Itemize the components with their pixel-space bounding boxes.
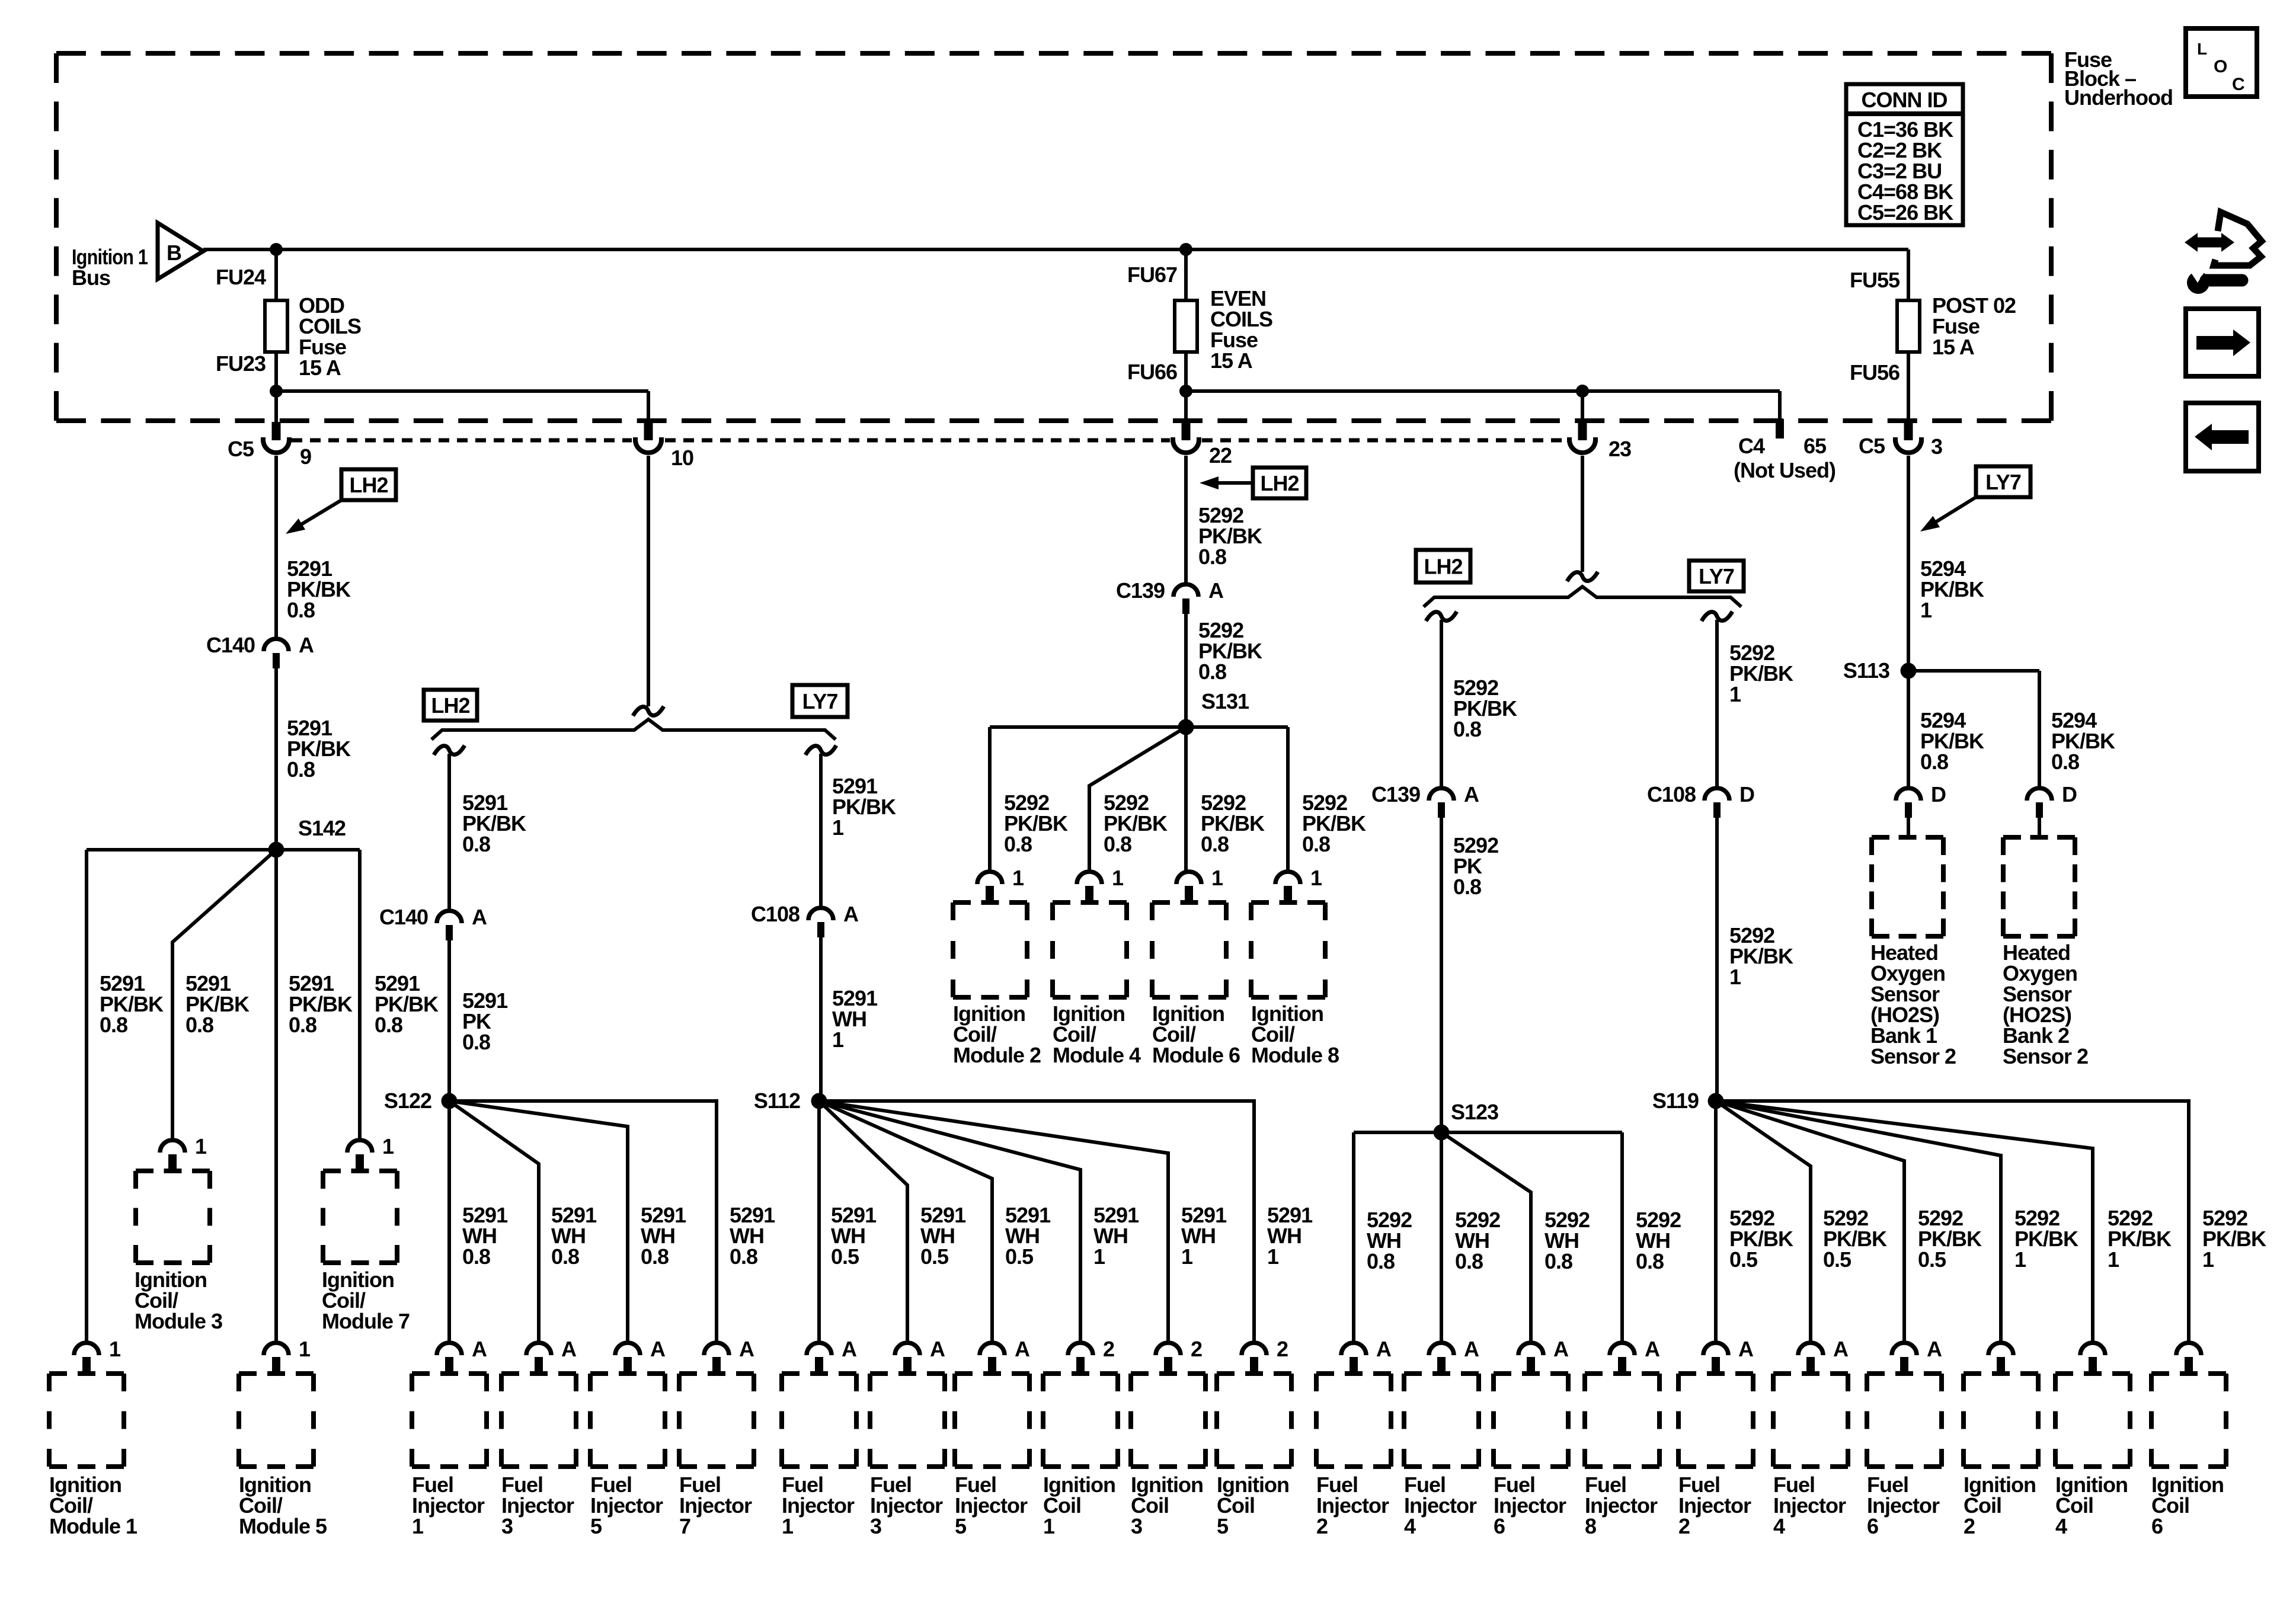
svg-text:1: 1: [2014, 1247, 2026, 1272]
svg-text:5: 5: [955, 1514, 967, 1538]
svg-text:22: 22: [1209, 443, 1232, 468]
svg-text:0.5: 0.5: [831, 1244, 859, 1269]
svg-text:1: 1: [195, 1134, 207, 1158]
svg-text:Sensor 2: Sensor 2: [1870, 1044, 1956, 1068]
svg-text:1: 1: [782, 1514, 794, 1538]
svg-text:Module 6: Module 6: [1152, 1043, 1240, 1067]
svg-text:2: 2: [1316, 1514, 1328, 1538]
svg-text:S131: S131: [1201, 689, 1249, 713]
svg-text:C140: C140: [206, 633, 255, 657]
svg-text:D: D: [2062, 782, 2077, 806]
svg-text:Bus: Bus: [72, 265, 110, 290]
svg-text:A: A: [650, 1337, 666, 1361]
svg-text:1: 1: [1267, 1244, 1279, 1269]
svg-text:FU23: FU23: [216, 351, 266, 376]
svg-text:1: 1: [1729, 965, 1741, 989]
svg-text:A: A: [472, 905, 487, 929]
svg-text:1: 1: [1112, 866, 1124, 890]
svg-text:2: 2: [1103, 1337, 1114, 1361]
svg-text:1: 1: [832, 1028, 844, 1052]
svg-text:Sensor 2: Sensor 2: [2003, 1044, 2088, 1068]
svg-text:LH2: LH2: [349, 473, 388, 497]
svg-text:L: L: [2197, 40, 2207, 58]
svg-text:0.8: 0.8: [551, 1244, 579, 1269]
svg-text:A: A: [843, 902, 859, 926]
svg-text:A: A: [1833, 1337, 1849, 1361]
svg-text:1: 1: [2108, 1247, 2119, 1272]
svg-text:S113: S113: [1843, 658, 1889, 683]
svg-text:1: 1: [382, 1134, 394, 1158]
svg-text:Underhood: Underhood: [2064, 85, 2173, 110]
svg-text:15 A: 15 A: [1932, 335, 1975, 359]
svg-text:C4: C4: [1738, 434, 1765, 458]
svg-text:C5: C5: [1859, 434, 1885, 458]
svg-text:1: 1: [412, 1514, 424, 1538]
svg-text:2: 2: [1191, 1337, 1202, 1361]
svg-text:9: 9: [300, 444, 311, 469]
svg-text:FU55: FU55: [1850, 268, 1900, 292]
svg-text:A: A: [472, 1337, 487, 1361]
svg-text:2: 2: [1277, 1337, 1288, 1361]
svg-text:LY7: LY7: [1699, 564, 1734, 588]
svg-text:2: 2: [1678, 1514, 1690, 1538]
svg-text:A: A: [1376, 1337, 1392, 1361]
svg-text:4: 4: [2055, 1514, 2067, 1538]
svg-text:C5: C5: [228, 437, 254, 461]
svg-text:1: 1: [1310, 866, 1322, 890]
svg-text:10: 10: [671, 446, 693, 470]
svg-text:4: 4: [1773, 1514, 1785, 1538]
svg-text:1: 1: [832, 815, 844, 840]
svg-text:0.8: 0.8: [186, 1013, 213, 1037]
svg-text:0.8: 0.8: [1302, 832, 1330, 856]
svg-text:65: 65: [1803, 434, 1827, 458]
svg-text:S122: S122: [384, 1089, 431, 1113]
svg-text:C5=26 BK: C5=26 BK: [1857, 200, 1953, 225]
svg-text:CONN ID: CONN ID: [1862, 88, 1948, 112]
svg-text:3: 3: [870, 1514, 881, 1538]
svg-text:O: O: [2214, 57, 2227, 76]
svg-text:FU66: FU66: [1127, 360, 1177, 384]
svg-text:6: 6: [2151, 1514, 2163, 1538]
svg-text:Module 5: Module 5: [239, 1514, 327, 1538]
svg-text:Module 2: Module 2: [953, 1043, 1041, 1067]
svg-text:C139: C139: [1371, 782, 1420, 806]
svg-text:A: A: [561, 1337, 577, 1361]
svg-text:A: A: [1645, 1337, 1660, 1361]
svg-text:LY7: LY7: [802, 689, 838, 713]
svg-text:0.8: 0.8: [1367, 1249, 1395, 1273]
svg-text:0.5: 0.5: [920, 1244, 949, 1269]
svg-text:Module 4: Module 4: [1053, 1043, 1141, 1067]
svg-text:0.5: 0.5: [1823, 1247, 1851, 1272]
svg-text:0.8: 0.8: [1636, 1249, 1664, 1273]
svg-text:1: 1: [109, 1337, 121, 1361]
svg-text:0.8: 0.8: [1104, 832, 1131, 856]
svg-text:6: 6: [1494, 1514, 1505, 1538]
svg-text:1: 1: [299, 1337, 311, 1361]
svg-text:0.8: 0.8: [1198, 660, 1226, 684]
svg-text:S123: S123: [1451, 1100, 1498, 1124]
svg-text:A: A: [1553, 1337, 1569, 1361]
svg-text:A: A: [842, 1337, 857, 1361]
svg-text:A: A: [1464, 1337, 1479, 1361]
svg-text:C108: C108: [751, 902, 800, 926]
svg-text:1: 1: [2202, 1247, 2214, 1272]
svg-text:5: 5: [590, 1514, 602, 1538]
svg-text:8: 8: [1585, 1514, 1596, 1538]
svg-text:LH2: LH2: [1424, 555, 1462, 579]
svg-text:6: 6: [1867, 1514, 1878, 1538]
svg-text:15 A: 15 A: [299, 356, 341, 380]
svg-text:C108: C108: [1647, 782, 1696, 806]
svg-text:S112: S112: [754, 1089, 800, 1113]
svg-text:1: 1: [1181, 1244, 1193, 1269]
svg-text:Module 7: Module 7: [322, 1309, 410, 1333]
svg-text:1: 1: [1729, 682, 1741, 706]
svg-text:1: 1: [1012, 866, 1024, 890]
svg-text:Module 1: Module 1: [49, 1514, 137, 1538]
svg-text:0.8: 0.8: [730, 1244, 757, 1269]
svg-text:1: 1: [1211, 866, 1223, 890]
svg-text:3: 3: [1131, 1514, 1142, 1538]
svg-text:A: A: [1208, 578, 1224, 603]
svg-text:B: B: [167, 241, 181, 265]
svg-text:1: 1: [1920, 598, 1932, 622]
svg-text:C: C: [2232, 75, 2244, 94]
svg-text:3: 3: [1931, 434, 1942, 459]
svg-text:0.5: 0.5: [1729, 1247, 1758, 1272]
svg-text:LY7: LY7: [1985, 470, 2021, 494]
svg-text:0.8: 0.8: [289, 1013, 316, 1037]
svg-text:C140: C140: [379, 905, 428, 929]
svg-text:2: 2: [1964, 1514, 1975, 1538]
svg-text:0.8: 0.8: [375, 1013, 402, 1037]
svg-text:A: A: [930, 1337, 945, 1361]
svg-text:D: D: [1739, 782, 1754, 806]
svg-text:4: 4: [1404, 1514, 1416, 1538]
svg-text:LH2: LH2: [1260, 471, 1299, 495]
svg-text:1: 1: [1043, 1514, 1055, 1538]
svg-text:A: A: [1738, 1337, 1754, 1361]
svg-text:0.8: 0.8: [287, 598, 315, 622]
svg-text:FU56: FU56: [1850, 360, 1900, 385]
svg-text:15 A: 15 A: [1210, 348, 1253, 373]
svg-text:LH2: LH2: [431, 693, 469, 718]
svg-text:0.8: 0.8: [462, 1244, 490, 1269]
svg-text:FU24: FU24: [216, 265, 266, 289]
svg-text:0.5: 0.5: [1918, 1247, 1946, 1272]
svg-text:Module 8: Module 8: [1251, 1043, 1339, 1067]
svg-text:A: A: [299, 633, 314, 657]
svg-text:A: A: [739, 1337, 754, 1361]
svg-text:0.8: 0.8: [1920, 750, 1948, 774]
svg-text:0.8: 0.8: [1455, 1249, 1483, 1273]
svg-text:0.8: 0.8: [462, 832, 490, 856]
svg-text:7: 7: [679, 1514, 690, 1538]
svg-text:A: A: [1015, 1337, 1030, 1361]
svg-text:Module 3: Module 3: [135, 1309, 222, 1333]
svg-text:0.8: 0.8: [1453, 875, 1481, 899]
svg-text:0.8: 0.8: [1201, 832, 1229, 856]
svg-text:0.8: 0.8: [1544, 1249, 1572, 1273]
svg-text:0.8: 0.8: [462, 1030, 490, 1054]
svg-text:1: 1: [1093, 1244, 1105, 1269]
svg-text:0.8: 0.8: [641, 1244, 669, 1269]
svg-text:0.5: 0.5: [1005, 1244, 1034, 1269]
svg-text:S142: S142: [298, 816, 346, 840]
svg-text:(Not Used): (Not Used): [1734, 458, 1835, 482]
svg-text:5: 5: [1217, 1514, 1229, 1538]
svg-text:0.8: 0.8: [1198, 545, 1226, 569]
svg-text:0.8: 0.8: [2051, 750, 2079, 774]
svg-text:FU67: FU67: [1127, 263, 1177, 287]
svg-text:3: 3: [501, 1514, 513, 1538]
svg-text:D: D: [1931, 782, 1946, 806]
svg-text:A: A: [1927, 1337, 1942, 1361]
svg-text:C139: C139: [1116, 578, 1165, 603]
svg-text:0.8: 0.8: [100, 1013, 127, 1037]
svg-text:0.8: 0.8: [1453, 717, 1481, 741]
svg-text:23: 23: [1609, 437, 1631, 461]
svg-text:0.8: 0.8: [1004, 832, 1032, 856]
svg-text:S119: S119: [1652, 1089, 1699, 1113]
svg-text:A: A: [1464, 782, 1479, 806]
svg-text:0.8: 0.8: [287, 757, 315, 782]
